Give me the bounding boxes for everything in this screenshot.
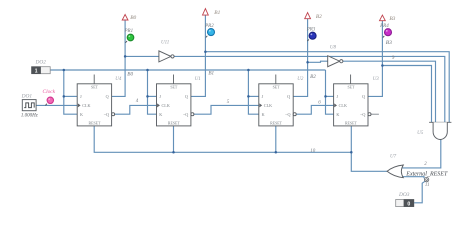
svg-text:PR3: PR3 — [306, 27, 316, 32]
svg-text:~Q: ~Q — [183, 112, 188, 117]
svg-text:U8: U8 — [330, 46, 337, 51]
svg-text:B3: B3 — [386, 40, 392, 46]
svg-text:Q: Q — [362, 94, 365, 99]
svg-text:U3: U3 — [373, 77, 380, 82]
svg-text:DO1: DO1 — [21, 94, 33, 100]
svg-text:11: 11 — [425, 183, 430, 188]
svg-text:B0: B0 — [127, 72, 133, 78]
svg-text:B3: B3 — [389, 16, 395, 22]
svg-text:U1: U1 — [195, 77, 201, 82]
svg-text:Q: Q — [185, 94, 188, 99]
svg-text:K: K — [262, 112, 265, 117]
svg-text:B1: B1 — [208, 71, 214, 77]
svg-text:PR4: PR4 — [379, 24, 389, 29]
svg-text:U11: U11 — [161, 41, 169, 46]
svg-text:SET: SET — [91, 86, 99, 90]
svg-text:PR2: PR2 — [204, 24, 214, 29]
svg-text:RESET: RESET — [89, 122, 102, 126]
svg-text:External_RESET: External_RESET — [405, 171, 448, 177]
svg-text:U5: U5 — [417, 131, 424, 136]
svg-text:RESET: RESET — [168, 122, 181, 126]
svg-text:SET: SET — [347, 86, 355, 90]
svg-text:B1: B1 — [214, 10, 220, 16]
svg-text:~Q: ~Q — [285, 112, 290, 117]
svg-text:Q: Q — [287, 94, 290, 99]
svg-text:Clock: Clock — [43, 89, 56, 95]
svg-text:CLK: CLK — [82, 103, 90, 108]
svg-text:0: 0 — [407, 201, 410, 207]
svg-text:SET: SET — [170, 86, 178, 90]
svg-text:~Q: ~Q — [104, 112, 109, 117]
svg-text:K: K — [336, 112, 339, 117]
svg-text:~Q: ~Q — [360, 112, 365, 117]
svg-text:U7: U7 — [390, 155, 397, 160]
svg-text:B0: B0 — [130, 15, 136, 21]
svg-text:CLK: CLK — [264, 103, 272, 108]
svg-text:CLK: CLK — [339, 103, 347, 108]
svg-text:B2: B2 — [316, 14, 322, 20]
svg-text:B2: B2 — [310, 74, 316, 80]
svg-text:1: 1 — [35, 68, 38, 74]
svg-text:CLK: CLK — [162, 103, 170, 108]
svg-text:10: 10 — [310, 149, 316, 154]
svg-text:RESET: RESET — [345, 122, 358, 126]
svg-text:U2: U2 — [297, 77, 304, 82]
svg-text:K: K — [159, 112, 162, 117]
svg-text:RESET: RESET — [270, 122, 283, 126]
svg-text:DO3: DO3 — [398, 192, 410, 198]
svg-text:1.000Hz: 1.000Hz — [21, 114, 38, 119]
svg-text:U4: U4 — [115, 77, 122, 82]
svg-text:K: K — [80, 112, 83, 117]
svg-text:PR1: PR1 — [124, 29, 134, 34]
svg-text:DO2: DO2 — [35, 59, 47, 65]
svg-text:SET: SET — [273, 86, 281, 90]
svg-text:Q: Q — [106, 94, 109, 99]
